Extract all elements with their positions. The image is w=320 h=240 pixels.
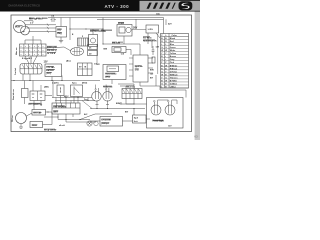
starter switch S3	[57, 85, 64, 96]
svg-text:ATV - 300: ATV - 300	[105, 4, 130, 9]
wire legend-left vertical	[157, 34, 159, 74]
svg-text:Yellow: Yellow	[170, 53, 177, 55]
wire choke drop	[102, 18, 104, 45]
speed unit box	[133, 115, 147, 123]
svg-text:W: W	[161, 74, 163, 76]
legend row 16	[161, 84, 189, 86]
wire lower bus	[11, 80, 100, 82]
legend row 4	[161, 48, 189, 50]
wire r2 leads	[24, 81, 26, 89]
header logo panel	[140, 1, 201, 11]
svg-text:12V: 12V	[44, 62, 49, 64]
svg-text:W/Black: W/Black	[170, 74, 179, 76]
starter relay K1	[89, 35, 98, 47]
wire legend color table	[161, 34, 189, 89]
resistor block R2	[22, 89, 29, 98]
legend row 11	[161, 69, 189, 71]
head lamp HL2	[165, 105, 175, 115]
wire relay top	[92, 29, 94, 35]
svg-text:KY3 (SWITCH): KY3 (SWITCH)	[29, 104, 43, 106]
svg-text:S/V REG: S/V REG	[143, 38, 152, 40]
H/O cap box	[32, 110, 46, 116]
speedometer cluster M1	[14, 21, 26, 33]
wire CDI top	[139, 44, 141, 55]
logo wordmark slashes	[147, 3, 176, 9]
wire reg top	[60, 18, 62, 27]
CDI unit U2	[133, 55, 148, 82]
wire switch bus 2	[55, 100, 95, 102]
wire switch to rect	[132, 29, 146, 31]
rectifier box	[146, 25, 159, 33]
svg-text:F/U hrn: F/U hrn	[12, 115, 14, 122]
legend row 8	[161, 60, 189, 62]
wire s2 feeds	[32, 81, 34, 92]
capacitor C4	[51, 18, 53, 23]
svg-text:x: x	[25, 46, 26, 48]
svg-text:MOC: MOC	[64, 96, 69, 98]
svg-text:12V: 12V	[168, 126, 172, 128]
svg-text:L.RG: L.RG	[148, 29, 153, 31]
svg-text:MCM: MCM	[15, 26, 20, 28]
head lamp HL1	[151, 105, 161, 115]
svg-text:C/A: C/A	[156, 13, 160, 16]
wire top bus 1	[48, 17, 164, 19]
svg-text:W: W	[165, 65, 167, 67]
legend row 12	[161, 72, 189, 74]
svg-text:sp: sp	[23, 31, 26, 33]
svg-text:RESTRICTOR: RESTRICTOR	[143, 41, 157, 43]
diagram frame	[11, 15, 192, 132]
legend row 5	[161, 51, 189, 53]
wire tail bus	[90, 108, 145, 110]
svg-text:(FLY): (FLY)	[46, 73, 51, 75]
svg-text:DIAGRAMA ELECTRICO: DIAGRAMA ELECTRICO	[9, 4, 41, 8]
wire verticals below rect	[147, 33, 149, 44]
svg-text:L/Blue: L/Blue	[170, 86, 177, 88]
diode block D1	[88, 45, 98, 50]
svg-text:x: x	[21, 46, 22, 48]
svg-text:Main sw: Main sw	[16, 47, 18, 55]
wire strip feeds	[55, 98, 57, 104]
wire j4 drops	[125, 99, 127, 105]
wire cluster leads	[26, 24, 57, 26]
svg-text:R/Black: R/Black	[170, 68, 178, 70]
svg-text:Gr Y/R B: Gr Y/R B	[47, 53, 56, 55]
svg-text:White: White	[170, 49, 176, 52]
legend row 14	[161, 78, 189, 80]
svg-text:x: x	[25, 50, 26, 52]
diagonal wire to right	[80, 114, 95, 120]
svg-text:30V: 30V	[133, 27, 138, 30]
svg-text:12V21/5W: 12V21/5W	[101, 120, 110, 122]
svg-text:Br/Whit: Br/Whit	[170, 79, 177, 82]
svg-text:Ign/Flas: Ign/Flas	[135, 66, 144, 68]
legend row 1	[161, 39, 189, 41]
svg-text:L: L	[166, 35, 168, 37]
svg-text:1/2: 1/2	[97, 64, 101, 66]
svg-text:A/C: A/C	[84, 113, 88, 116]
horn label box	[30, 122, 43, 128]
svg-text:Gr/Blck: Gr/Blck	[170, 83, 178, 85]
svg-text:120: 120	[150, 74, 153, 76]
svg-text:DC/: DC/	[57, 30, 61, 32]
wire top bus 2	[97, 18, 164, 20]
header bar	[0, 0, 200, 12]
regulator U1 DC/Reg	[56, 27, 67, 38]
svg-text:x: x	[34, 50, 35, 52]
legend row 13	[161, 75, 189, 77]
wire right vertical	[155, 75, 157, 86]
wire bottom links	[90, 120, 100, 122]
winker relay oval	[71, 48, 84, 56]
svg-text:B: B	[72, 34, 74, 36]
resistor R1	[152, 57, 155, 63]
svg-text:Unit: Unit	[134, 120, 138, 123]
svg-text:Spss: Spss	[72, 83, 78, 85]
svg-text:x: x	[38, 54, 39, 56]
svg-text:R/B W/L g: R/B W/L g	[47, 50, 57, 52]
hatch in j4	[123, 89, 126, 93]
wire horn lead	[27, 113, 33, 116]
lamp L2	[103, 92, 113, 102]
svg-text:UNIT: UNIT	[53, 111, 58, 113]
svg-text:B/Y: B/Y	[150, 78, 154, 80]
main connector J1 grid	[20, 44, 47, 56]
wire CDI pins left	[129, 57, 133, 59]
svg-text:b w: b w	[30, 22, 34, 24]
wire oval links	[64, 47, 71, 51]
svg-text:Reg: Reg	[57, 33, 62, 35]
svg-text:x: x	[21, 54, 22, 56]
legend row 17	[161, 87, 189, 89]
legend row 2	[161, 42, 189, 44]
wire switch verticals	[52, 81, 54, 98]
logo S emblem	[179, 1, 193, 10]
svg-text:x: x	[25, 54, 26, 56]
bulb spec box	[100, 117, 123, 127]
svg-text:ST: ST	[79, 67, 82, 69]
wire battery feed	[69, 18, 71, 41]
svg-text:B/V: B/V	[125, 112, 129, 114]
svg-text:B/White: B/White	[170, 64, 178, 67]
svg-text:Y/Green: Y/Green	[170, 77, 178, 79]
svg-text:Hi/Lo con: Hi/Lo con	[126, 86, 136, 88]
ground below regulator	[60, 37, 62, 41]
svg-text:(M/O): (M/O)	[82, 83, 87, 85]
legend row 3	[161, 45, 189, 47]
starter motor box	[78, 63, 93, 76]
wire brake diagonals	[25, 56, 29, 64]
svg-text:A/V: A/V	[168, 23, 172, 26]
magneto coil hatch	[78, 38, 89, 46]
label smudges	[29, 18, 35, 19]
lamp L1	[92, 92, 102, 102]
rear connector J4	[122, 89, 142, 99]
legend row 9	[161, 63, 189, 65]
svg-text:W: W	[165, 50, 167, 52]
wire lamp bottoms	[96, 100, 98, 104]
svg-text:TW1 SPLREB: TW1 SPLREB	[53, 106, 66, 108]
wire bus to spd unit	[133, 109, 135, 116]
svg-text:(MC): (MC)	[105, 77, 110, 79]
svg-text:x: x	[34, 54, 35, 56]
hatch j2 top row	[22, 64, 24, 68]
meter unit connector J3	[52, 103, 80, 114]
svg-text:Rear brk sw: Rear brk sw	[13, 89, 15, 100]
wire strip drops	[57, 114, 59, 120]
wire horn links	[43, 124, 53, 126]
wire right of switch	[135, 19, 137, 29]
wire rect arrow	[156, 33, 160, 38]
svg-text:(A/B): (A/B)	[44, 86, 49, 89]
svg-text:63: 63	[194, 135, 198, 139]
svg-text:g: g	[82, 36, 83, 38]
hand brake MC box	[103, 65, 126, 80]
legend row 7	[161, 57, 189, 59]
svg-text:Black: Black	[170, 38, 176, 40]
wire horn ground	[20, 124, 22, 128]
svg-text:W: W	[161, 50, 163, 52]
wire handbrake feed	[96, 44, 98, 65]
capacitor C2	[152, 46, 154, 50]
svg-text:Color: Color	[172, 35, 177, 37]
brake connector J2	[20, 64, 42, 75]
wire diag to tail bus	[82, 101, 92, 109]
svg-text:x: x	[38, 50, 39, 52]
svg-text:x: x	[38, 46, 39, 48]
wire handbrake drop	[111, 80, 113, 85]
svg-text:x: x	[34, 46, 35, 48]
svg-text:w/ Lp 12V3W: w/ Lp 12V3W	[44, 130, 56, 132]
legend row 15	[161, 81, 189, 83]
wire CDI pins right	[148, 57, 153, 59]
dimmer switch S2	[30, 91, 45, 101]
wire brake drops	[22, 74, 24, 81]
wire s2 drops	[33, 101, 35, 110]
svg-text:x: x	[21, 50, 22, 52]
svg-text:G/Yellw: G/Yellw	[170, 71, 178, 73]
wire connector feeds	[24, 40, 26, 44]
headlight enclosure	[147, 98, 184, 129]
svg-text:D2: D2	[89, 53, 91, 55]
svg-text:(A/c): (A/c)	[66, 60, 71, 63]
horn H1	[16, 113, 27, 124]
scan margin right	[195, 12, 200, 141]
battery BT1	[45, 64, 62, 77]
wire j4 feeds	[125, 86, 127, 89]
svg-text:B/W: B/W	[150, 70, 154, 72]
legend row 10	[161, 66, 189, 68]
svg-text:D1: D1	[89, 47, 91, 49]
wire bottom h runs	[44, 116, 58, 118]
svg-text:a/b c/d: a/b c/d	[59, 125, 65, 127]
tiny lamp symbols	[87, 121, 92, 126]
wire bus drop right	[163, 18, 165, 34]
svg-text:Green: Green	[170, 47, 177, 49]
wire fuse right	[126, 49, 131, 51]
connector ticks on leads	[47, 24, 49, 26]
wire CDI bottom	[139, 82, 141, 86]
wire headlight feeds	[120, 103, 147, 105]
legend row 6	[161, 54, 189, 56]
svg-text:(W/R)x2: (W/R)x2	[101, 123, 109, 125]
wire battery drop	[51, 77, 53, 81]
wire switch drop	[123, 36, 125, 44]
svg-text:B/N: B/N	[104, 49, 108, 51]
wire switch bus	[52, 97, 92, 99]
svg-text:W: W	[165, 80, 167, 82]
svg-text:Brown: Brown	[170, 56, 177, 58]
svg-text:Frnt brk: Frnt brk	[14, 67, 17, 75]
wire mid bus	[103, 43, 136, 45]
svg-text:Spd/: Spd/	[134, 118, 139, 120]
kill switch S4	[71, 85, 83, 97]
svg-text:C/4: C/4	[121, 52, 125, 55]
svg-text:M: M	[85, 67, 87, 69]
svg-text:C: C	[161, 35, 163, 37]
svg-text:Horn: Horn	[32, 125, 38, 127]
